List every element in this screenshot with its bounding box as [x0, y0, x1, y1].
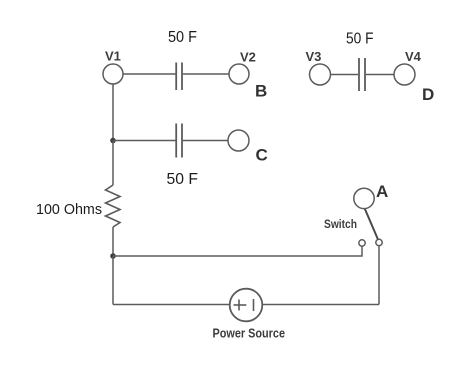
svg-text:Switch: Switch [324, 219, 357, 231]
wire switch right contact down [378, 246, 380, 305]
capacitor C2 [359, 58, 365, 91]
svg-text:100 Ohms: 100 Ohms [36, 201, 102, 218]
node V3 [310, 64, 331, 85]
svg-text:D: D [422, 85, 434, 104]
wire V3 to capacitor C2 [331, 74, 359, 76]
switch S1 left contact [359, 240, 365, 246]
svg-text:50 F: 50 F [168, 29, 197, 46]
svg-text:A: A [376, 182, 388, 201]
wire junction to capacitor C3 [113, 140, 176, 142]
svg-text:50 F: 50 F [346, 31, 374, 48]
capacitor C3 [176, 124, 182, 158]
node V2 [229, 64, 249, 84]
resistor R1 [106, 185, 121, 227]
wire capacitor C3 to node C [183, 140, 228, 142]
svg-text:50 F: 50 F [167, 171, 199, 188]
junction at V1 branch [110, 138, 116, 144]
switch S1 right contact [376, 239, 382, 245]
capacitor C1 [176, 63, 182, 91]
wire bottom left to power source [113, 304, 230, 306]
junction at switch branch [110, 253, 116, 259]
node V4 [394, 64, 415, 85]
node C terminal [228, 130, 249, 151]
svg-text:V1: V1 [105, 49, 121, 64]
wire V1 branch down left side [112, 256, 114, 305]
svg-text:V3: V3 [306, 49, 322, 64]
power source B1 [230, 289, 263, 322]
wire junction to switch left contact [113, 246, 362, 256]
wire V1 down to junction [112, 84, 114, 141]
svg-text:Power Source: Power Source [213, 326, 286, 341]
wire capacitor C2 to V4 [366, 74, 394, 76]
wire capacitor C1 to V2 [183, 73, 229, 75]
svg-text:V2: V2 [240, 50, 256, 65]
wire power source to bottom right [262, 304, 379, 306]
node A terminal [354, 188, 374, 208]
wire V1 to capacitor C1 [123, 73, 176, 75]
switch S1 arm [365, 208, 379, 240]
wire resistor R1 down to junction [112, 227, 114, 256]
wire junction down to resistor R1 [112, 141, 114, 186]
node V1 [103, 64, 123, 84]
svg-text:C: C [256, 146, 268, 165]
svg-text:B: B [255, 82, 267, 101]
svg-text:V4: V4 [405, 49, 422, 64]
